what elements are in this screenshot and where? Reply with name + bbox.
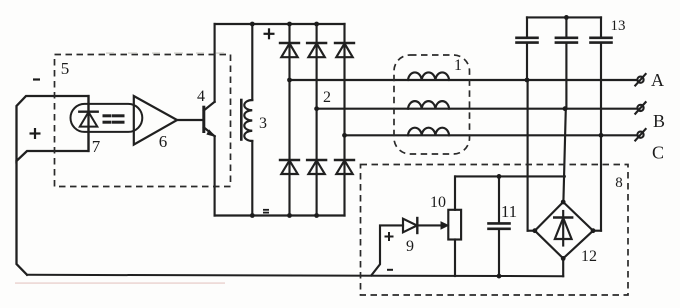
svg-text:C: C xyxy=(652,143,664,163)
svg-text:7: 7 xyxy=(92,137,101,156)
svg-text:4: 4 xyxy=(197,88,205,105)
svg-text:12: 12 xyxy=(581,248,597,265)
svg-text:2: 2 xyxy=(323,89,331,106)
svg-text:1: 1 xyxy=(454,57,462,74)
svg-text:8: 8 xyxy=(615,175,623,191)
svg-text:A: A xyxy=(651,70,664,90)
svg-text:3: 3 xyxy=(259,115,267,132)
svg-text:5: 5 xyxy=(61,59,70,78)
svg-text:B: B xyxy=(653,111,665,131)
svg-text:9: 9 xyxy=(406,238,414,255)
svg-text:11: 11 xyxy=(501,202,517,221)
svg-text:6: 6 xyxy=(159,132,168,151)
svg-text:10: 10 xyxy=(430,194,446,211)
svg-text:13: 13 xyxy=(611,18,626,34)
